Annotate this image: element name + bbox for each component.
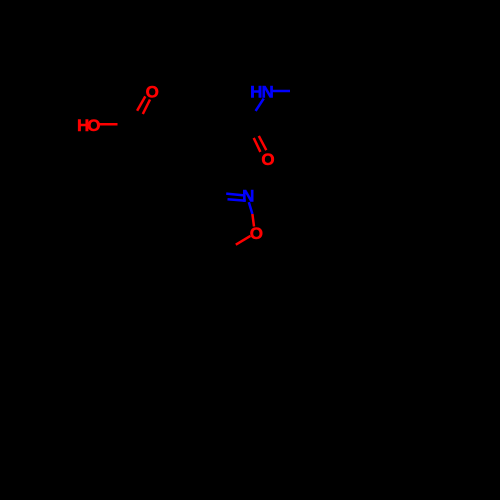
amide: double bond C2=O3, line a (red half): [254, 138, 261, 152]
isoxazole: double bond C3=N2, bottom line (blue half): [228, 199, 246, 201]
carboxylic acid: double bond C1=O1, line b (red half): [143, 100, 150, 115]
carboxylic acid: double bond C1=O1, line a (red half): [137, 96, 145, 110]
carboxylic acid: bond O(H)-C1 (red half): [99, 123, 118, 126]
isoxazole: double bond C3=N2, top line (blue half): [226, 194, 244, 196]
isoxazole: bond N2-O4 (red half): [252, 214, 254, 227]
isoxazole: bond N2-O4 (blue half): [249, 202, 253, 214]
svg-text:O: O: [261, 150, 274, 169]
svg-text:O: O: [250, 224, 263, 243]
svg-text:O: O: [87, 116, 100, 135]
amide: double bond C2=O3, line b (red half): [259, 136, 267, 150]
amide: bond N1-C2 (blue half, diagonal down-left): [256, 99, 264, 111]
isoxazole: bond O4-C5 (red half, down-left): [236, 236, 251, 245]
svg-text:O: O: [146, 83, 159, 102]
amide: bond N1-CH2 (blue half, to the right): [273, 90, 291, 93]
